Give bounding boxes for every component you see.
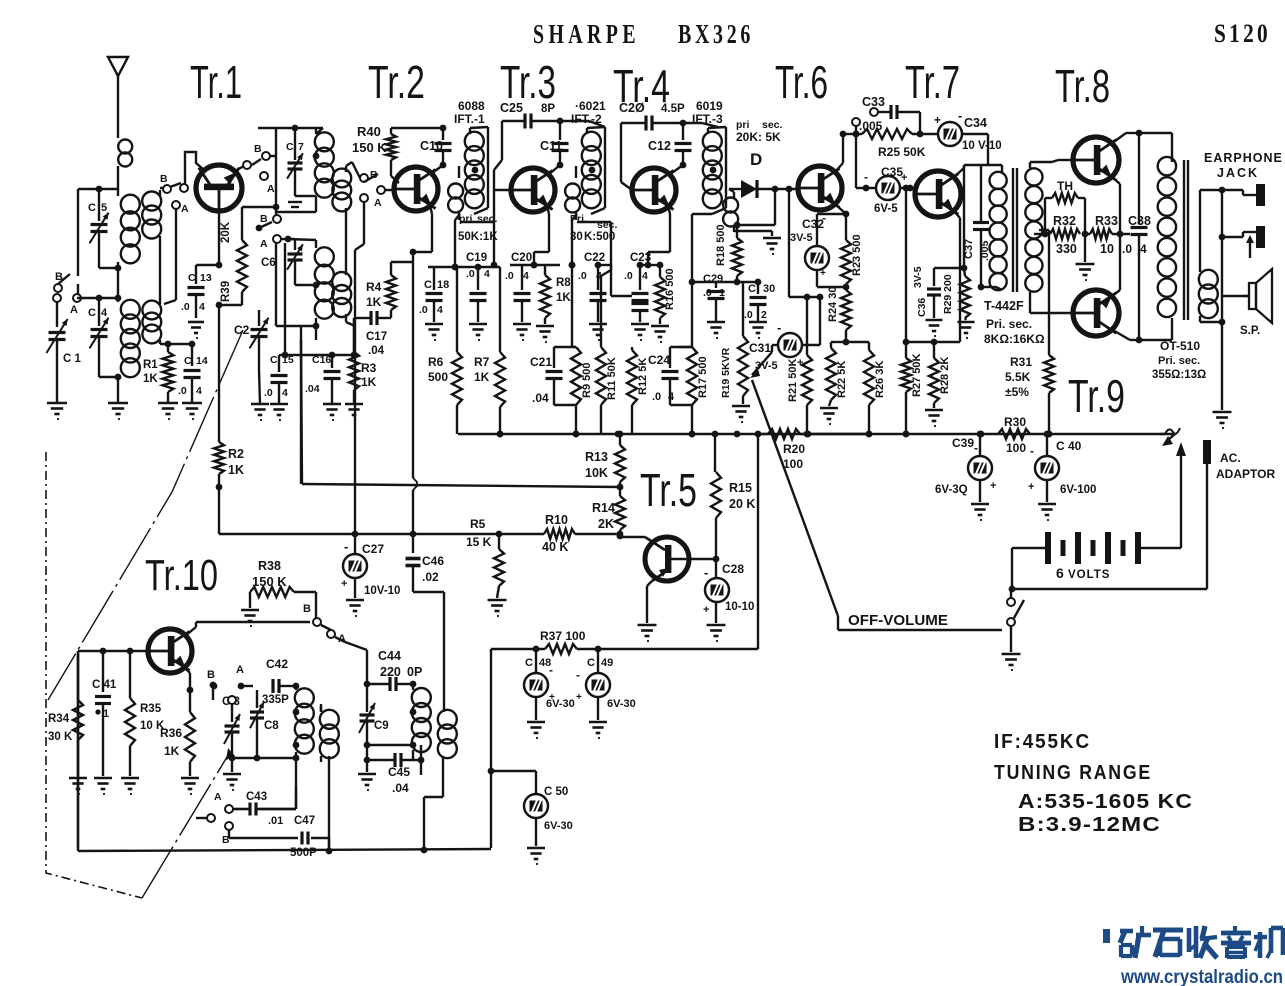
svg-text:C47: C47 <box>294 815 315 827</box>
svg-text:C12: C12 <box>648 139 671 153</box>
watermark www.crystalradio.cn <box>1120 967 1283 986</box>
ground R36 <box>181 778 199 795</box>
svg-text:4: 4 <box>484 268 490 280</box>
svg-text:C: C <box>88 202 96 214</box>
svg-text:C24: C24 <box>648 353 670 367</box>
svg-text:.0: .0 <box>578 270 587 282</box>
svg-text:C43: C43 <box>246 791 267 803</box>
speaker S.P. <box>1222 269 1272 337</box>
svg-text:3V-5: 3V-5 <box>755 360 778 372</box>
capacitor C11 <box>540 121 569 168</box>
svg-text:R5: R5 <box>470 517 486 531</box>
ground C40 <box>1038 504 1056 521</box>
wire battery left <box>1009 548 1045 592</box>
resistor R36 lead <box>160 726 190 776</box>
wire IFT-2 sec out <box>577 222 611 265</box>
wire detector node <box>692 214 761 285</box>
capacitor C24 <box>648 347 692 405</box>
wire <box>117 269 119 302</box>
svg-text:R24 30: R24 30 <box>827 287 839 322</box>
svg-text:C31: C31 <box>749 341 771 355</box>
transformer T-442F secondary <box>1025 162 1042 298</box>
svg-text:C8: C8 <box>264 720 279 732</box>
svg-text:6V-30: 6V-30 <box>607 698 636 710</box>
resistor R2 1K <box>214 442 244 534</box>
svg-text:7: 7 <box>298 141 304 153</box>
svg-text:6088: 6088 <box>458 99 485 113</box>
antenna coupling loops <box>118 140 132 190</box>
svg-text:330: 330 <box>1056 242 1077 256</box>
label IFT-3 pri sec <box>736 119 783 144</box>
svg-text:-: - <box>344 539 348 554</box>
wire left column <box>77 651 79 851</box>
svg-text:6V-30: 6V-30 <box>544 820 573 832</box>
wire Tr.8 emitter <box>1111 176 1120 234</box>
svg-text:1K: 1K <box>228 463 244 477</box>
svg-text:Tr.7: Tr.7 <box>905 56 960 108</box>
diode D <box>729 150 762 198</box>
svg-text:-: - <box>958 108 962 123</box>
svg-text:EARPHONE: EARPHONE <box>1204 151 1283 165</box>
svg-text:-: - <box>822 211 826 225</box>
oscillator coil T3 sec wires <box>424 756 443 850</box>
capacitor C15 <box>264 243 294 404</box>
svg-text:+: + <box>1028 481 1034 493</box>
svg-text:R29 200: R29 200 <box>942 274 954 314</box>
svg-text:.0: .0 <box>505 270 514 282</box>
ground C18 <box>425 324 443 341</box>
capacitor C43 lead <box>233 755 299 827</box>
svg-text:.04: .04 <box>392 781 409 795</box>
capacitor C21b <box>530 347 576 405</box>
wire center tap R31 <box>1039 230 1049 355</box>
potentiometer R19 5KVR <box>720 282 748 404</box>
svg-text:R25 50K: R25 50K <box>878 145 926 159</box>
switch B A C42 <box>207 669 216 700</box>
wire left drop <box>488 649 495 848</box>
resistor R21 50K <box>787 294 812 438</box>
svg-text:A: A <box>181 203 189 215</box>
transistor Tr.3 <box>511 168 555 212</box>
wire C11 IFT-2 <box>560 121 605 127</box>
svg-text:OFF-VOLUME: OFF-VOLUME <box>848 612 948 629</box>
svg-text:6019: 6019 <box>696 99 723 113</box>
wire IFT-2 feed <box>569 214 577 268</box>
wire Tr.6 emitter <box>835 204 849 240</box>
svg-text:C44: C44 <box>378 649 401 663</box>
svg-text:T-442F: T-442F <box>984 299 1024 313</box>
wire Tr.4 collector <box>669 165 683 175</box>
svg-text:3V-5: 3V-5 <box>790 232 813 244</box>
resistor R33 10 <box>1085 214 1130 256</box>
node R1 C14 <box>160 340 195 347</box>
svg-text:6V-5: 6V-5 <box>874 203 898 215</box>
svg-text:OT-510: OT-510 <box>1160 339 1200 353</box>
oscillator coil T2 secondary <box>320 706 339 758</box>
wire Tr.3 emitter <box>531 205 549 268</box>
svg-text:10 K: 10 K <box>140 720 165 732</box>
ground C36 <box>926 320 943 337</box>
svg-text:R7: R7 <box>474 355 490 369</box>
wire diode out <box>734 189 775 228</box>
wire A contact down <box>164 209 176 304</box>
svg-text:C28: C28 <box>722 562 744 576</box>
svg-text:C19: C19 <box>466 252 487 264</box>
svg-text:1K: 1K <box>361 375 377 389</box>
earphone jack plug 1 <box>1219 184 1265 206</box>
node C20 row <box>510 262 575 269</box>
transistor Tr.8 <box>1073 137 1119 183</box>
wire IFT-1 feed <box>452 214 460 270</box>
wire Tr.1 collector diag <box>233 161 251 172</box>
svg-text:.02: .02 <box>422 570 439 584</box>
resistor R7 1K <box>474 267 505 437</box>
capacitor C34 electrolytic <box>934 108 1002 165</box>
ground R22 <box>820 408 838 425</box>
svg-text:1K: 1K <box>474 370 490 384</box>
antenna <box>108 57 128 138</box>
wire top node <box>78 186 118 193</box>
ground C30 <box>749 322 767 339</box>
svg-text:1K: 1K <box>143 373 158 385</box>
capacitor C10 <box>420 128 452 168</box>
resistor R12 5K <box>627 347 649 434</box>
capacitor C18 <box>419 267 449 322</box>
svg-text:R39: R39 <box>220 281 232 302</box>
ground C16 <box>323 404 341 421</box>
svg-text:R18 500: R18 500 <box>715 224 727 266</box>
svg-text:.0: .0 <box>419 304 428 316</box>
svg-text:BX326: BX326 <box>678 19 754 49</box>
node B-A input switch <box>54 189 81 316</box>
watermark 矿石收音机 <box>1103 926 1283 958</box>
wire Tr.7 collector <box>953 165 1002 271</box>
ground C19 <box>469 324 487 341</box>
wire C9 bottom <box>367 744 413 746</box>
wire Tr.10 emitter <box>184 667 190 690</box>
svg-text:JACK: JACK <box>1217 166 1259 180</box>
svg-text:B:3.9-12MC: B:3.9-12MC <box>1018 814 1161 836</box>
resistor R15 20K <box>711 434 755 562</box>
svg-text:R40: R40 <box>357 124 381 139</box>
svg-text:R16 500: R16 500 <box>664 268 676 310</box>
svg-text:C: C <box>184 355 192 367</box>
capacitor C49 electrolytic <box>576 649 636 720</box>
svg-text:R23 500: R23 500 <box>851 234 863 276</box>
svg-text:B: B <box>254 143 262 155</box>
svg-text:R21 50K: R21 50K <box>787 359 799 402</box>
svg-text:.0: .0 <box>652 391 661 403</box>
resistor R40 150K <box>352 124 399 183</box>
wire Tr.9 base feed <box>1030 298 1073 313</box>
svg-text:150 K: 150 K <box>252 574 287 589</box>
svg-text:6V-100: 6V-100 <box>1060 484 1096 496</box>
wire Tr.7 emitter <box>934 210 960 342</box>
wire Tr.4 emitter <box>645 205 670 268</box>
ground IFT-3 sec <box>734 231 781 255</box>
resistor R11 50K <box>596 270 618 434</box>
svg-text:.04: .04 <box>368 345 385 357</box>
ground C23 <box>631 324 649 341</box>
resistor R10 40K <box>542 513 620 554</box>
resistor R8 1K <box>540 265 571 324</box>
capacitor C48 electrolytic <box>524 657 575 710</box>
wire battery right <box>1141 442 1186 548</box>
ground C28 <box>707 625 726 642</box>
ground R38 <box>241 610 259 627</box>
svg-text:A: A <box>70 304 78 316</box>
resistor R31 5.5K <box>1005 355 1054 437</box>
wire C12 IFT-3 <box>683 123 718 127</box>
resistor R6 500 <box>428 267 462 434</box>
ground C15 <box>270 404 288 421</box>
svg-text:·: · <box>95 706 99 720</box>
svg-text:R28 2K: R28 2K <box>939 357 951 394</box>
IF transformer IFT-2 label <box>571 99 606 126</box>
resistor R14 2K <box>592 496 625 537</box>
resistor R3 1K <box>349 318 377 404</box>
svg-text:A:535-1605 KC: A:535-1605 KC <box>1018 791 1193 813</box>
capacitor C47 500P <box>229 815 329 859</box>
svg-text:20K: 20K <box>220 221 232 243</box>
wire T-442F sec top <box>1030 161 1052 163</box>
IF transformer IFT-2 ratio <box>570 231 583 243</box>
capacitor C22 <box>578 252 607 322</box>
note B range <box>1018 814 1161 836</box>
svg-text:500: 500 <box>428 370 448 384</box>
svg-text:R38: R38 <box>258 559 281 573</box>
oscillator coil T3 primary <box>410 684 431 760</box>
wire Tr.2 emitter long <box>413 262 417 534</box>
svg-text:C20: C20 <box>511 252 532 264</box>
resistor R9 500 <box>571 265 593 437</box>
wire Tr.2 emitter <box>355 202 432 262</box>
ground switch <box>1002 654 1021 671</box>
label Tr.5 <box>640 464 697 516</box>
svg-text:30 K: 30 K <box>48 731 73 743</box>
bus AGC <box>302 484 623 491</box>
transistor Tr.7 <box>915 171 961 217</box>
IF transformer IFT-2 secondary <box>565 166 580 220</box>
transistor Tr.9 <box>1073 290 1119 336</box>
svg-text:3V-5: 3V-5 <box>912 266 924 288</box>
svg-text:Pri. sec.: Pri. sec. <box>1158 355 1200 367</box>
svg-text:100: 100 <box>783 457 803 471</box>
svg-text:14: 14 <box>196 355 208 367</box>
svg-text:4: 4 <box>642 270 648 282</box>
svg-text:30: 30 <box>763 283 775 295</box>
oscillator coil T1 lower <box>276 239 334 340</box>
svg-text:R14: R14 <box>592 501 615 515</box>
resistor R36 1K <box>185 687 195 762</box>
capacitor C42 335P <box>262 657 299 706</box>
svg-text:.0: .0 <box>181 301 190 313</box>
svg-text:D: D <box>750 150 762 169</box>
wire Tr.9 collector <box>1111 318 1172 343</box>
capacitor C35 electrolytic <box>856 165 916 215</box>
svg-text:5.5K: 5.5K <box>1005 370 1031 384</box>
title SHARPE <box>533 19 640 49</box>
svg-text:Tr.5: Tr.5 <box>640 464 697 516</box>
svg-text:10V-10: 10V-10 <box>364 585 400 597</box>
ground R32 R33 <box>1076 234 1095 281</box>
node C18 row <box>428 264 500 271</box>
svg-text:.04: .04 <box>305 383 320 395</box>
svg-text:C29: C29 <box>703 273 723 285</box>
wire left column b <box>77 655 79 848</box>
wire bias line <box>219 531 544 538</box>
label IFT-2 ratio2 <box>584 231 615 243</box>
svg-text:R3: R3 <box>361 361 377 375</box>
ground C22 <box>589 324 607 341</box>
transformer T-442F core <box>1013 168 1017 292</box>
svg-text:Tr.6: Tr.6 <box>775 56 828 108</box>
ground R35 <box>121 778 139 795</box>
svg-text:50K:1K: 50K:1K <box>458 231 498 243</box>
label Tr.6 <box>775 56 828 108</box>
AC adaptor jack <box>1203 440 1275 589</box>
label Tr.9 <box>1068 370 1125 422</box>
ground R3 <box>345 404 363 421</box>
wire R40 top <box>391 125 446 132</box>
title S120 <box>1214 19 1271 48</box>
capacitor C19 <box>466 252 490 322</box>
wire Tr.10 base <box>78 648 149 655</box>
resistor R4 1K <box>366 262 413 318</box>
svg-text:C27: C27 <box>362 542 384 556</box>
ground C13 <box>188 322 204 339</box>
svg-text:C22: C22 <box>584 252 605 264</box>
transformer OT-510 primary <box>1158 156 1176 317</box>
capacitor C50 electrolytic <box>491 771 573 846</box>
ground C39 <box>971 504 989 521</box>
IF transformer IFT-2 primary <box>582 127 605 214</box>
resistor R13 10K <box>585 431 625 496</box>
label Tr.7 <box>905 56 960 108</box>
svg-text:C 1: C 1 <box>63 353 82 365</box>
coupling coil L2 lower <box>142 236 161 343</box>
label OT-510 <box>1152 339 1206 381</box>
svg-text:C 41: C 41 <box>92 679 117 691</box>
svg-text:355Ω:13Ω: 355Ω:13Ω <box>1152 369 1206 381</box>
svg-text:Tr.2: Tr.2 <box>368 56 425 108</box>
capacitor C31 <box>749 297 820 372</box>
svg-text:+: + <box>820 268 826 279</box>
oscillator coil T2 primary <box>293 686 314 758</box>
svg-text:4: 4 <box>196 385 202 397</box>
svg-text:+: + <box>901 172 907 184</box>
switch term <box>196 814 233 846</box>
svg-text:4: 4 <box>282 387 288 399</box>
svg-text:18: 18 <box>437 279 449 291</box>
IF transformer IFT-3 label <box>692 99 723 126</box>
svg-text:B: B <box>303 603 311 615</box>
earphone jack plug 2 <box>1222 190 1265 258</box>
svg-text:C: C <box>587 657 595 669</box>
wire R37 line <box>491 434 758 652</box>
svg-text:IF:455KC: IF:455KC <box>994 731 1091 753</box>
switch B A C42 b <box>211 664 253 689</box>
ground C3 <box>223 774 241 791</box>
transistor Tr.5 <box>645 537 716 581</box>
svg-text:10-10: 10-10 <box>725 601 754 613</box>
svg-text:R19 5KVR: R19 5KVR <box>720 347 732 398</box>
svg-text:10: 10 <box>1100 242 1114 256</box>
ground R34 <box>69 778 87 795</box>
switch contact B Tr.1 <box>160 173 189 215</box>
svg-text:20 K: 20 K <box>729 497 755 511</box>
capacitor C20b <box>505 252 532 322</box>
svg-text:B: B <box>160 173 168 185</box>
resistor R20 100b <box>768 429 805 471</box>
svg-text:C25: C25 <box>500 101 523 115</box>
capacitor C46 <box>406 534 445 712</box>
svg-text:500P: 500P <box>290 847 317 859</box>
resistor R25 50K <box>853 129 939 159</box>
ground C45 <box>358 774 376 791</box>
input transformer L4 upper <box>332 162 360 211</box>
wire Tr.1 emitter down <box>218 305 220 442</box>
svg-text:-: - <box>576 668 580 682</box>
transformer OT-510 secondary <box>1199 266 1218 318</box>
capacitor C13 <box>181 265 219 318</box>
svg-text:C45: C45 <box>388 765 410 779</box>
ground C29 <box>707 322 725 339</box>
svg-text:10K: 10K <box>585 466 608 480</box>
note IF 455KC <box>994 731 1091 753</box>
svg-text:4.5P: 4.5P <box>661 103 685 115</box>
svg-text:R4: R4 <box>366 280 382 294</box>
svg-text:C34: C34 <box>964 116 987 130</box>
wire Tr.3 collector <box>548 165 560 175</box>
wire Tr.6 base <box>757 186 798 297</box>
ground C49 <box>589 722 607 739</box>
svg-text:Pri. sec.: Pri. sec. <box>986 317 1032 331</box>
svg-text:.01: .01 <box>268 815 283 827</box>
gang line C3 <box>142 748 235 898</box>
svg-text:R17 500: R17 500 <box>697 356 709 398</box>
node B A Tr.1 right <box>252 143 276 195</box>
battery 6V <box>1174 433 1176 435</box>
wire Tr.8 base feed <box>1052 160 1073 162</box>
svg-text:+: + <box>341 578 347 590</box>
svg-text:2K: 2K <box>598 517 614 531</box>
switch Tr.10 wire <box>335 637 345 642</box>
svg-text:R35: R35 <box>140 703 162 715</box>
label T-442F <box>984 299 1045 346</box>
oscillator coil T1 upper <box>313 128 334 204</box>
wire osc down <box>300 326 302 484</box>
ground R28 <box>925 410 943 427</box>
svg-text:R37 100: R37 100 <box>540 629 586 643</box>
dash-dot boundary <box>46 452 142 898</box>
svg-text:C36: C36 <box>916 298 928 317</box>
resistor R37 100 <box>540 629 586 654</box>
svg-text:-: - <box>704 565 708 580</box>
label Tr.4 <box>613 60 670 112</box>
capacitor C30 <box>744 282 775 322</box>
wire Tr.6 base bottom <box>789 294 823 301</box>
wire Tr.4 base <box>620 123 622 170</box>
antenna coil L1 lower <box>115 300 140 403</box>
capacitor C20 4.5P <box>611 101 686 270</box>
svg-text:R26 3K: R26 3K <box>874 361 886 398</box>
svg-text:IFT.-2: IFT.-2 <box>571 112 602 126</box>
transformer OT-510 core <box>1184 160 1188 320</box>
svg-text:C42: C42 <box>266 657 288 671</box>
capacitor C43 <box>243 786 296 816</box>
svg-text:R27 50K: R27 50K <box>911 354 923 397</box>
